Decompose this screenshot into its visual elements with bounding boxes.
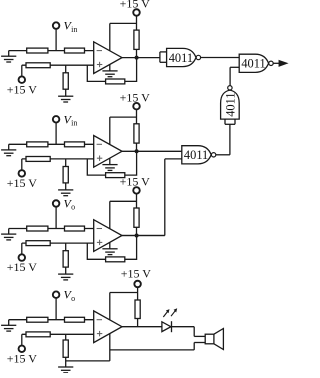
svg-text:+15 V: +15 V (7, 176, 38, 190)
svg-text:+15 V: +15 V (7, 82, 38, 96)
ground row2 op-amp (102, 165, 117, 171)
ground row3 left (1, 229, 16, 240)
svg-text:+15 V: +15 V (7, 351, 38, 365)
resistor R11 (134, 109, 139, 151)
ground row2 divider (58, 190, 73, 196)
svg-text:+15 V: +15 V (120, 0, 151, 11)
resistor R4 (63, 65, 68, 96)
ground row1 left (1, 51, 16, 62)
svg-text:+15 V: +15 V (121, 266, 152, 280)
resistor R22 (63, 334, 68, 367)
ground row3 op-amp (102, 249, 117, 255)
wire row3 V+ supply pin (110, 201, 137, 229)
ground row4 divider (58, 367, 73, 373)
wire row1 output (122, 57, 160, 59)
node Vo row4 terminal (53, 288, 75, 320)
svg-text:4011: 4011 (169, 51, 193, 65)
node Vo row3 terminal (53, 197, 75, 229)
node row1 output junction (135, 56, 139, 60)
resistor R2 (65, 48, 85, 53)
wire row3 output (122, 235, 165, 237)
wire row4 V+ supply pin (110, 293, 138, 321)
logic gate U5C 4011 (182, 146, 216, 164)
wire row4 non-inverting input line (22, 333, 94, 335)
logic gate U5B 4011 (239, 54, 273, 72)
ground row4 left (1, 320, 16, 331)
power +15V row3 pull-up terminal (120, 175, 151, 194)
svg-text:o: o (71, 294, 75, 303)
speaker LS1 (205, 329, 223, 350)
resistor R5 (134, 16, 139, 58)
node Vin row1 terminal (53, 19, 77, 51)
op-amp U2 (94, 136, 122, 168)
power +15V row1 pull-up terminal (120, 0, 151, 16)
wire row2 inverting input line (9, 143, 94, 145)
wire row3 output riser to U5C lower input (122, 159, 182, 236)
resistor R7 (27, 142, 48, 147)
wire row1 non-inverting input line (22, 64, 94, 66)
wire row2 non-inverting input line (22, 158, 94, 160)
resistor R17 (134, 194, 139, 236)
logic gate U5A 4011 (167, 48, 201, 66)
ground row2 left (1, 144, 16, 155)
resistor R20 (65, 317, 85, 322)
wire row2 V+ supply pin (110, 117, 137, 145)
op-amp U3 (94, 220, 122, 252)
svg-text:+15 V: +15 V (7, 260, 38, 274)
svg-text:in: in (71, 119, 77, 128)
power +15V row1 reference terminal (7, 65, 38, 96)
power +15V row2 reference terminal (7, 159, 38, 190)
logic gate U5A 4011 input bracket (160, 52, 167, 62)
svg-text:o: o (71, 203, 75, 212)
wire row1 V- supply pin (109, 64, 111, 71)
ground row1 divider (58, 96, 73, 102)
ground row1 op-amp (102, 71, 117, 77)
wire row3 V- supply pin (109, 242, 111, 249)
wire row3 inverting input line (9, 228, 94, 230)
wire row2 output (122, 150, 182, 152)
op-amp U1 (94, 42, 122, 74)
svg-text:+15 V: +15 V (120, 175, 151, 189)
wire row1 inverting input line (9, 50, 94, 52)
resistor R3 (26, 63, 50, 68)
wire U5A output to U5B (201, 57, 240, 59)
resistor R1 (27, 48, 48, 53)
power +15V row3 reference terminal (7, 243, 38, 274)
resistor R6 (87, 58, 136, 84)
resistor R18 (87, 236, 136, 262)
node row3 output junction (135, 234, 139, 238)
svg-text:4011: 4011 (184, 148, 208, 162)
resistor R13 (27, 226, 48, 231)
wire row4 inverting input line (9, 319, 94, 321)
resistor R9 (26, 157, 50, 162)
resistor R10 (63, 159, 68, 190)
power +15V row4 reference terminal (7, 334, 38, 365)
led D1 (162, 321, 194, 332)
wire row1 V+ supply pin (110, 23, 137, 51)
wire LED to speaker top terminal (194, 327, 205, 337)
wire row4 output to LED (122, 326, 162, 328)
op-amp U4 (94, 311, 122, 343)
resistor R16 (63, 243, 68, 274)
resistor R21 (26, 332, 50, 337)
wire U5C output to U5D input (215, 124, 230, 155)
node output arrow (273, 61, 286, 66)
wire U5B lower input (230, 67, 239, 85)
wire row2 V- supply pin (109, 158, 111, 165)
resistor R19 (27, 317, 48, 322)
node row2 output junction (135, 149, 139, 153)
wire row4 V- to ground return (66, 334, 110, 361)
logic gate U5D input bracket (225, 119, 235, 124)
wire speaker bottom return (110, 343, 205, 350)
power +15V row2 pull-up terminal (120, 90, 151, 109)
svg-text:in: in (71, 25, 77, 34)
resistor R14 (65, 226, 85, 231)
svg-text:+15 V: +15 V (120, 90, 151, 104)
svg-text:4011: 4011 (223, 92, 237, 116)
resistor R12 (87, 151, 136, 177)
svg-text:4011: 4011 (241, 57, 265, 71)
ground row3 divider (58, 274, 73, 280)
resistor R8 (65, 142, 85, 147)
led D1 light arrows (163, 308, 177, 317)
logic gate U5D 4011 (vertical) (221, 86, 240, 119)
power +15V row4 pull-up terminal (121, 266, 152, 287)
node Vin row2 terminal (53, 112, 77, 144)
wire row3 non-inverting input line (22, 242, 94, 244)
resistor R23 (135, 287, 140, 327)
resistor R15 (26, 241, 50, 246)
